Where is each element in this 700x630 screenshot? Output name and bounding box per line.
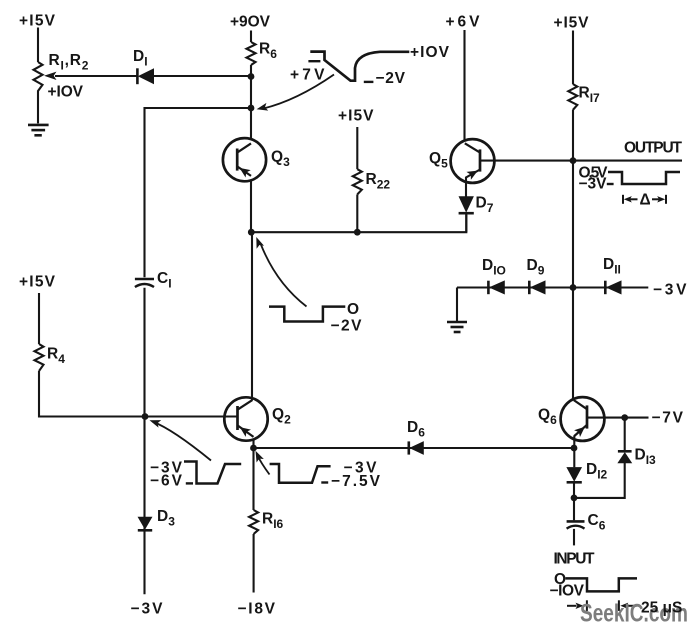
svg-text:+IOV: +IOV bbox=[48, 84, 84, 101]
svg-text:+I5V: +I5V bbox=[338, 108, 374, 125]
svg-text:+6V: +6V bbox=[446, 14, 481, 31]
svg-text:+I5V: +I5V bbox=[19, 13, 56, 30]
svg-text:+7V: +7V bbox=[290, 67, 325, 84]
svg-text:OUTPUT: OUTPUT bbox=[624, 140, 683, 157]
svg-text:−3V: −3V bbox=[653, 282, 687, 299]
svg-text:+I5V: +I5V bbox=[554, 15, 590, 32]
svg-text:−3V: −3V bbox=[131, 601, 164, 618]
svg-text:+9OV: +9OV bbox=[230, 14, 271, 31]
svg-text:−7V: −7V bbox=[652, 410, 684, 427]
svg-text:−2V: −2V bbox=[331, 318, 363, 335]
svg-text:+I5V: +I5V bbox=[19, 274, 56, 291]
svg-text:−IOV: −IOV bbox=[550, 583, 585, 600]
svg-text:INPUT: INPUT bbox=[554, 551, 596, 568]
svg-text:−7.5V: −7.5V bbox=[331, 473, 381, 490]
svg-text:−2V: −2V bbox=[376, 70, 406, 87]
svg-text:+IOV: +IOV bbox=[410, 44, 450, 61]
svg-text:25 μS: 25 μS bbox=[641, 600, 682, 617]
svg-text:−3V: −3V bbox=[579, 176, 608, 193]
svg-text:−I8V: −I8V bbox=[238, 601, 276, 618]
svg-text:Δ: Δ bbox=[640, 192, 651, 209]
svg-text:−6V: −6V bbox=[150, 473, 183, 490]
svg-text:O: O bbox=[347, 301, 359, 318]
